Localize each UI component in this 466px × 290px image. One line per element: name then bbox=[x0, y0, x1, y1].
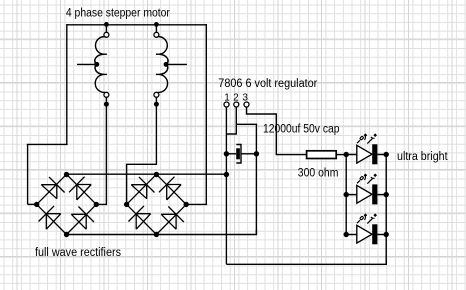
svg-text:ultra bright: ultra bright bbox=[397, 151, 448, 163]
node cap left lead bbox=[224, 151, 229, 156]
wire bridge edge left-bottom (bridge 1) bbox=[37, 204, 67, 234]
wire LED cathode lead (LED1) bbox=[377, 154, 386, 156]
node bridge1 top vertex bbox=[64, 172, 69, 177]
LED triangle (LED2) bbox=[357, 185, 372, 203]
pin 3 terminal U1 bbox=[244, 102, 249, 107]
node left coil center tap bbox=[94, 62, 99, 67]
terminal right coil top bbox=[154, 32, 159, 37]
node junction top rail left coil bbox=[104, 22, 109, 27]
wire right coil bottom stub bbox=[155, 97, 157, 104]
node bridge2 top vertex bbox=[154, 172, 159, 177]
node bridge2 left vertex bbox=[124, 202, 129, 207]
wire left coil bottom stub bbox=[105, 97, 107, 104]
diode lower-left (bridge 2) bbox=[136, 214, 151, 230]
diode lower-right (bridge 1) bbox=[71, 214, 86, 229]
svg-text:12000uf 50v cap: 12000uf 50v cap bbox=[263, 123, 340, 135]
LED triangle (LED3) bbox=[357, 225, 372, 243]
wire bottom return rail bbox=[226, 259, 386, 264]
svg-text:full wave rectifiers: full wave rectifiers bbox=[35, 247, 121, 259]
terminal left coil top bbox=[104, 32, 109, 37]
node bridge1 right vertex bbox=[94, 202, 99, 207]
wire cap right vertical bbox=[255, 154, 257, 235]
wire LED anode lead (LED3) bbox=[346, 234, 357, 236]
wire positive bus bridge tops to regulator bbox=[67, 173, 227, 175]
node cap right lead bbox=[254, 151, 259, 156]
node bridge2 bottom vertex bbox=[154, 232, 159, 237]
wire LED anode lead (LED2) bbox=[346, 194, 357, 196]
node junction below right coil bbox=[154, 102, 159, 107]
node right coil center tap bbox=[164, 62, 169, 67]
wire left jog horizontal bbox=[27, 143, 68, 145]
diode upper-right (bridge 2) bbox=[167, 185, 181, 200]
LED cathode bar (LED1) bbox=[372, 144, 377, 164]
wire LED cathode lead (LED2) bbox=[377, 194, 386, 196]
diode lower-left (bridge 1) bbox=[46, 214, 61, 230]
node LED2 cathode bbox=[384, 192, 389, 197]
wire pin3 to resistor bbox=[247, 107, 307, 155]
LED light arrows (LED3) bbox=[357, 213, 377, 223]
wire LED cathode rail bbox=[385, 155, 387, 265]
wire top rail bbox=[67, 24, 207, 26]
wire LED cathode lead (LED3) bbox=[377, 234, 386, 236]
capacitor C1 plate bracket bbox=[236, 145, 241, 164]
wire left center tap stub bbox=[77, 63, 97, 65]
wire bridge edge bottom-right (bridge 2) bbox=[156, 204, 186, 234]
wire bridge edge left-bottom (bridge 2) bbox=[127, 204, 157, 234]
node LED2 anode bbox=[344, 192, 349, 197]
pin 2 terminal U1 bbox=[234, 102, 239, 107]
wire right rail down bbox=[205, 24, 207, 204]
node LED1 cathode bbox=[384, 152, 389, 157]
wire regulator input drop bbox=[225, 107, 227, 265]
node LED3 anode bbox=[344, 232, 349, 237]
resistor R1 300 ohm bbox=[307, 151, 337, 159]
wire right center tap stub bbox=[166, 63, 187, 65]
svg-text:7806 6 volt regulator: 7806 6 volt regulator bbox=[218, 78, 317, 90]
wire bridge edge top-right (bridge 2) bbox=[156, 174, 186, 204]
node bridge1 bottom vertex bbox=[64, 232, 69, 237]
wire pin2 jog to cap left bbox=[226, 107, 236, 134]
node junction below left coil bbox=[104, 102, 109, 107]
wire left coil top stub bbox=[105, 25, 107, 33]
wire LED anode lead (LED1) bbox=[346, 154, 357, 156]
wire bridge edge bottom-right (bridge 1) bbox=[67, 204, 97, 234]
node bridge1 left vertex bbox=[34, 202, 39, 207]
node positive bus end junction bbox=[224, 172, 229, 177]
node junction top rail right coil bbox=[154, 22, 159, 27]
diode upper-left (bridge 1) bbox=[41, 185, 57, 199]
wire left coil down to bridge1 right vertex bbox=[96, 104, 106, 204]
diode lower-right (bridge 2) bbox=[161, 214, 176, 229]
pin 1 terminal U1 bbox=[224, 102, 229, 107]
wire right coil jog to bridge2 left vertex bbox=[126, 104, 156, 204]
node LED3 cathode bbox=[384, 232, 389, 237]
wire cap right lead bbox=[241, 153, 256, 155]
LED cathode bar (LED3) bbox=[372, 224, 377, 244]
wire bridge edge top-right (bridge 1) bbox=[67, 174, 97, 204]
inductor left stepper winding bbox=[95, 37, 105, 55]
wire LED anode rail bbox=[345, 155, 347, 235]
node bridge2 right vertex bbox=[184, 202, 189, 207]
terminal right coil bottom bbox=[154, 92, 159, 97]
LED light arrows (LED2) bbox=[357, 174, 377, 184]
wire stub to bridge1 left vertex bbox=[28, 203, 37, 205]
wire pin2 branch to cap right bbox=[236, 124, 256, 154]
diode upper-right (bridge 1) bbox=[77, 185, 91, 200]
svg-text:4 phase stepper motor: 4 phase stepper motor bbox=[66, 7, 170, 19]
wire cap left lead bbox=[226, 153, 236, 155]
wire bridge edge left-top (bridge 1) bbox=[37, 174, 67, 204]
terminal left coil bottom bbox=[104, 92, 109, 97]
LED cathode bar (LED2) bbox=[372, 184, 377, 204]
capacitor C1 plate bar bbox=[236, 148, 240, 159]
wire resistor to LED rail bbox=[336, 154, 346, 156]
node LED1 anode bbox=[344, 152, 349, 157]
LED light arrows (LED1) bbox=[357, 133, 377, 143]
LED triangle (LED1) bbox=[357, 145, 372, 163]
wire right rail to bridge2 right vertex bbox=[186, 203, 207, 205]
wire left jog vertical bbox=[27, 144, 29, 204]
svg-text:300 ohm: 300 ohm bbox=[298, 167, 339, 179]
wire left rail down bbox=[66, 24, 68, 144]
wire bottom bus bridges bbox=[67, 230, 257, 235]
wire bridge edge left-top (bridge 2) bbox=[127, 174, 157, 204]
diode upper-left (bridge 2) bbox=[131, 185, 147, 199]
inductor right stepper winding bbox=[158, 37, 168, 55]
wire right coil top stub bbox=[155, 25, 157, 33]
